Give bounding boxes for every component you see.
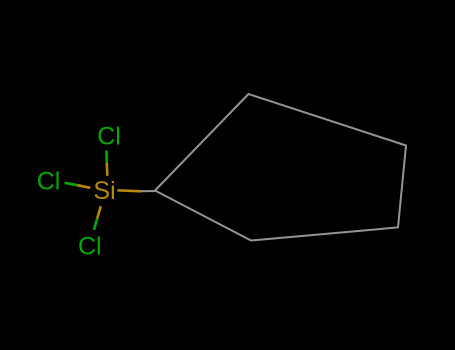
svg-text:Cl: Cl bbox=[97, 122, 121, 150]
bond Si-C1 (C half) bbox=[141, 190, 156, 192]
wire C2-C3 bbox=[249, 94, 407, 146]
bond Si-Cl left (Cl half) bbox=[65, 183, 78, 185]
wire C1-C2 bbox=[155, 94, 249, 191]
bond Si-Cl top (Cl half) bbox=[105, 151, 108, 164]
bond Si-Cl bottom (Si half) bbox=[97, 206, 101, 218]
bond Si-C1 (Si half) bbox=[117, 190, 141, 191]
svg-text:Cl: Cl bbox=[78, 233, 102, 261]
wire C3-C4 bbox=[398, 146, 406, 228]
svg-text:Si: Si bbox=[93, 177, 115, 205]
bond Si-Cl left (Si half) bbox=[77, 185, 90, 188]
cyclopentane ring C1-C2-C3-C4-C5 bbox=[155, 94, 406, 241]
bond Si-Cl top (Si half) bbox=[106, 163, 109, 176]
wire C4-C5 bbox=[251, 227, 398, 240]
svg-text:Cl: Cl bbox=[37, 168, 61, 196]
wire C5-C1 bbox=[155, 191, 251, 241]
bond Si-Cl bottom (Cl half) bbox=[94, 219, 97, 230]
